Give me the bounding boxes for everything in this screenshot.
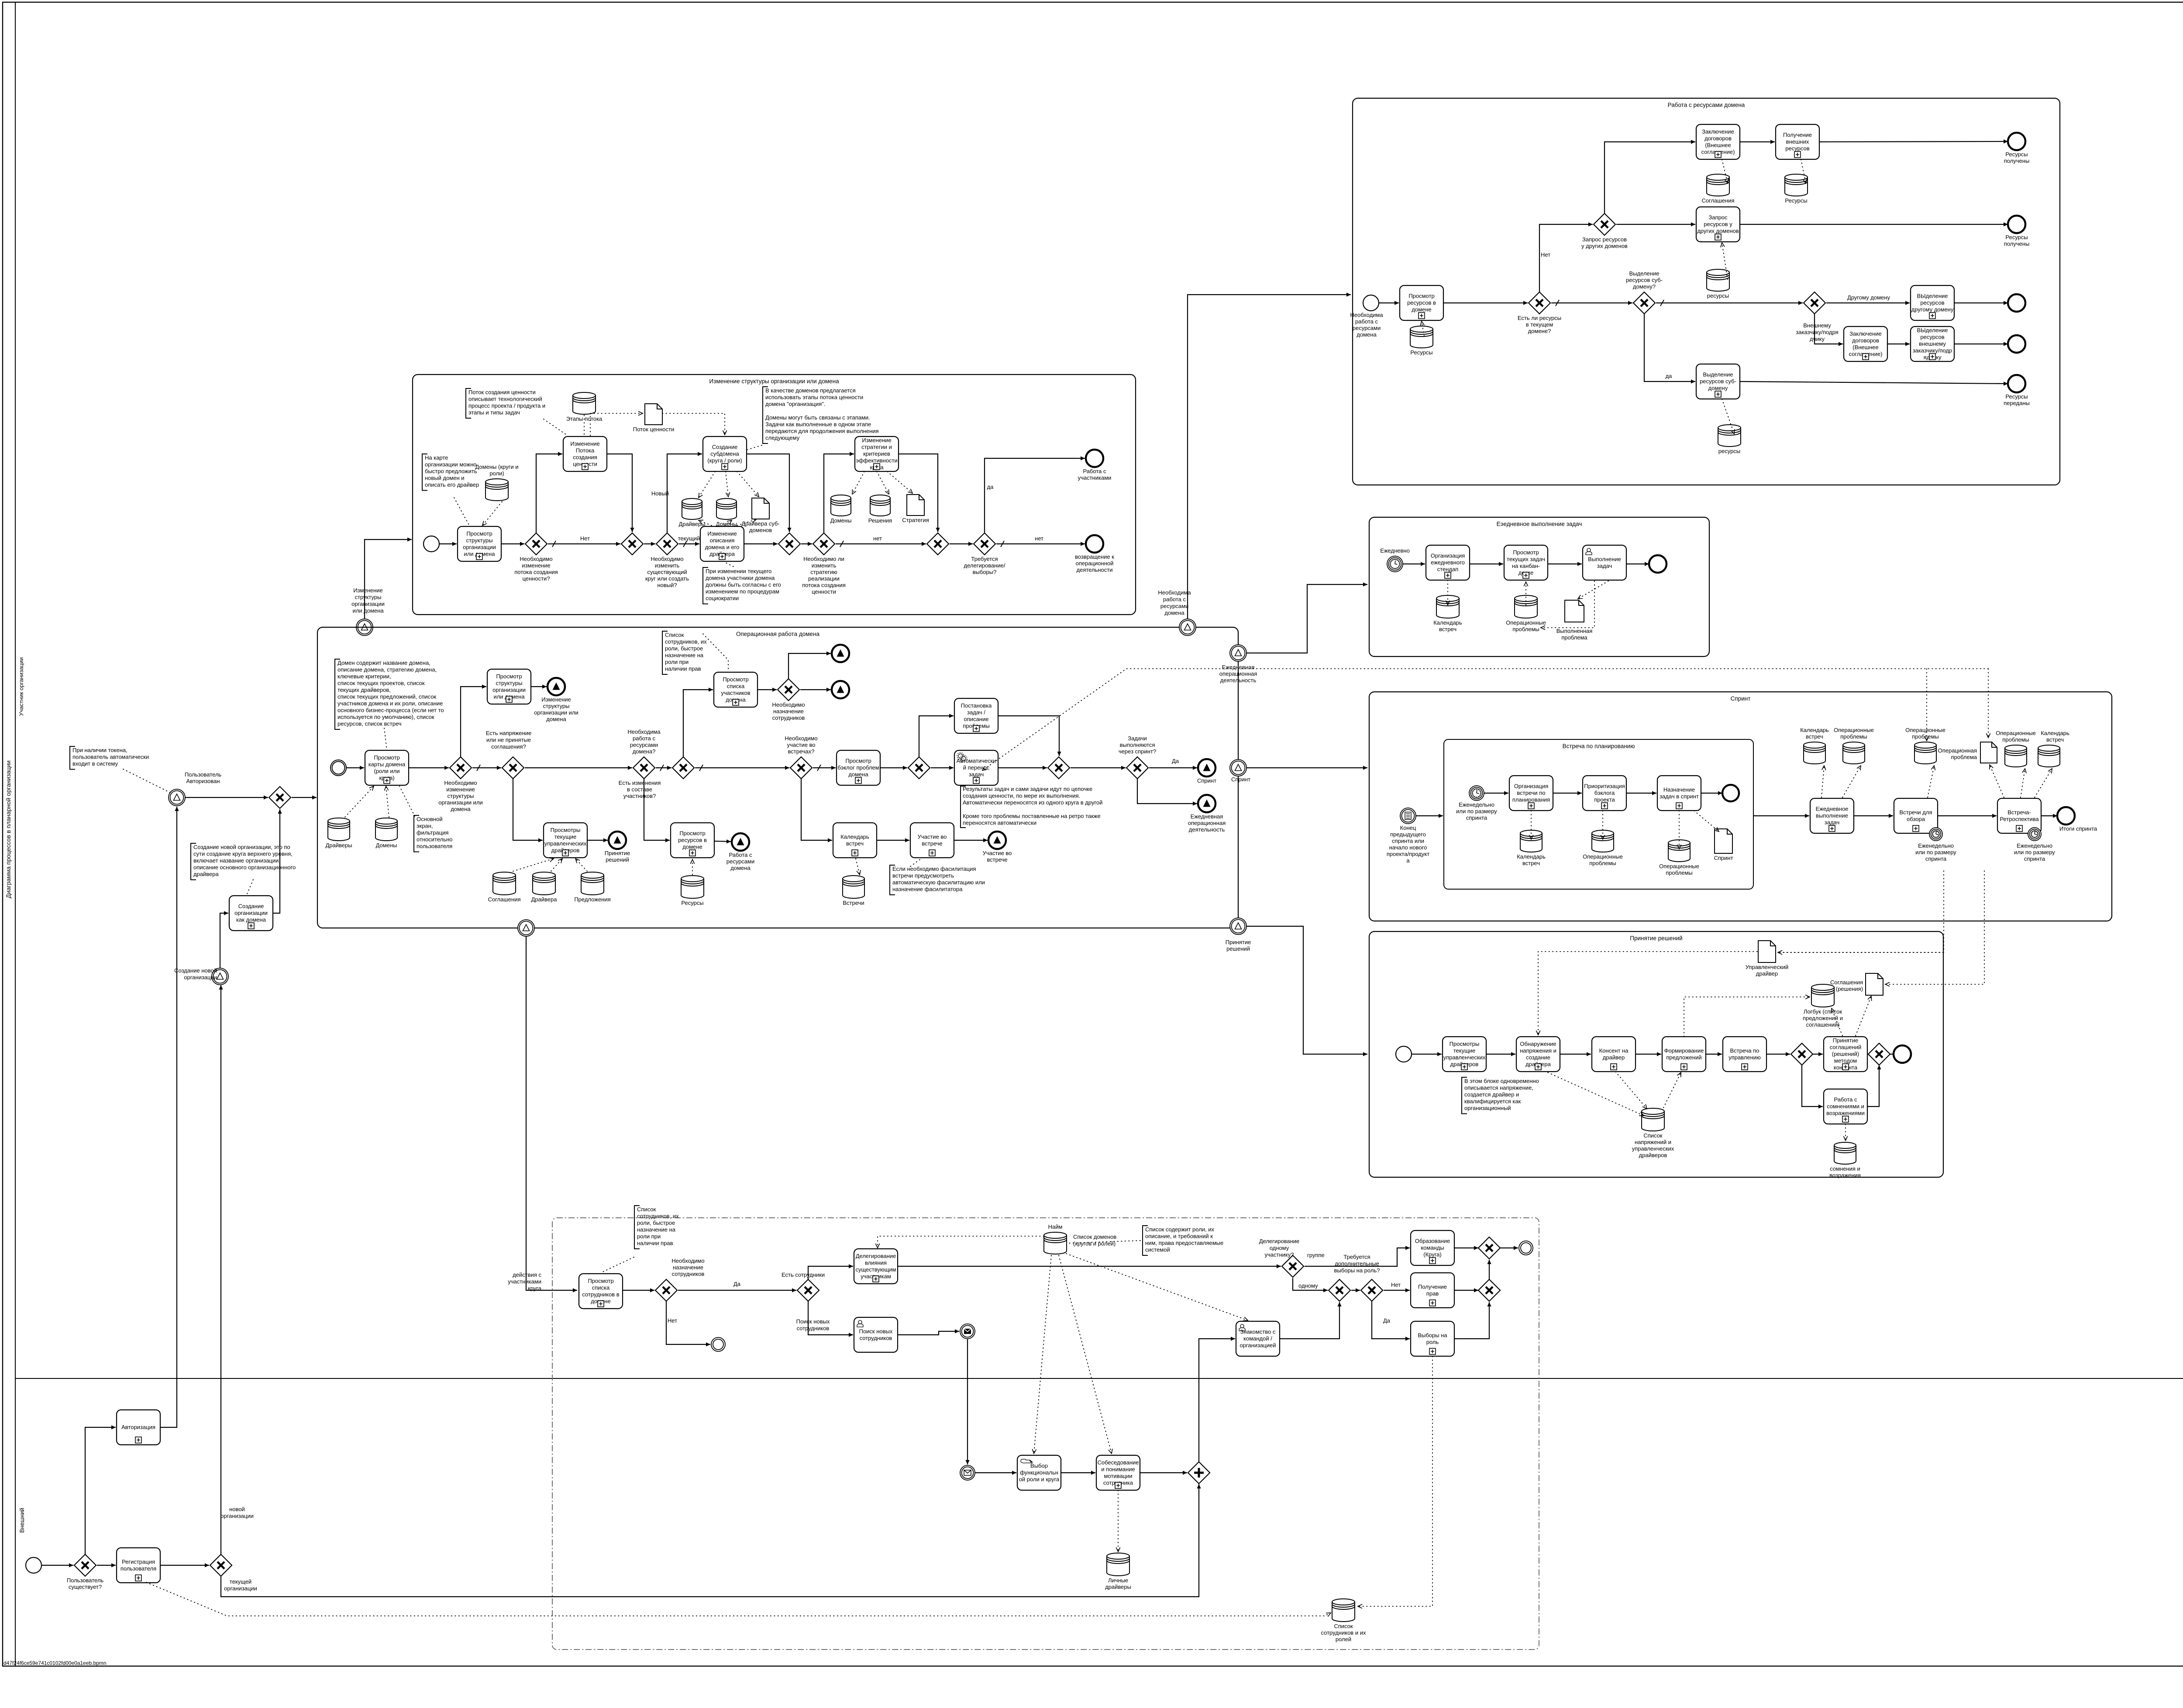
wire: Заключение 2 → ВЫделение внешнему (1887, 342, 1910, 346)
svg-text:проблемы: проблемы (1666, 869, 1692, 876)
svg-text:Принятие: Принятие (1226, 939, 1251, 945)
svg-text:Необходимо: Необходимо (772, 701, 805, 708)
svg-text:В этом блоке одновременно: В этом блоке одновременно (1464, 1078, 1539, 1084)
wire: гейтвей A1 → гейтвей A3 (1551, 300, 1632, 306)
svg-text:ценности?: ценности? (522, 575, 550, 582)
svg-text:Выделение: Выделение (1703, 371, 1733, 378)
wire: ВЫделение другому → конец (1954, 301, 2008, 305)
svg-text:Спринт: Спринт (1714, 855, 1733, 861)
annotation: Список сотрудников их роли (C) (662, 631, 707, 674)
svg-text:Задачи: Задачи (1128, 735, 1147, 742)
svg-text:ресурсами: ресурсами (727, 858, 754, 865)
svg-text:Диаграмма процессов в планарно: Диаграмма процессов в планарной организа… (5, 760, 12, 898)
wire: Создание организации → гейтвей авторизации (273, 809, 282, 913)
label: Есть напряжение или не принятые соглашения? (486, 730, 532, 750)
task: Формирование предложений (1662, 1037, 1706, 1072)
svg-text:Еэедневное выполнение задач: Еэедневное выполнение задач (1497, 521, 1582, 527)
svg-text:Ресурсы: Ресурсы (1410, 349, 1432, 356)
svg-text:деятельность: деятельность (1189, 826, 1225, 833)
assoc: аннотация список → Просмотр списка (703, 634, 728, 671)
wire: гейтвей A2 вверх → Заключение договоров (1605, 140, 1695, 213)
svg-text:(кругов и ролей): (кругов и ролей) (1073, 1241, 1116, 1247)
wire: Просмотр задач → Выполнение задач (1548, 562, 1582, 566)
svg-text:участнику?: участнику? (1265, 1251, 1294, 1258)
task: Получение прав (1411, 1273, 1454, 1308)
svg-text:соглашений: соглашений (1830, 1044, 1862, 1051)
svg-text:Кроме того проблемы поставленн: Кроме того проблемы поставленные на ретр… (963, 813, 1101, 819)
assoc: ресурсы A3 → Запрос ресурсов (1721, 243, 1728, 279)
svg-text:Домен содержит название домена: Домен содержит название домена, (337, 660, 430, 666)
svg-text:критериев: критериев (863, 450, 890, 457)
assoc: Ресурсы → Просмотр ресурсов A (1420, 321, 1424, 336)
svg-text:на канбан-: на канбан- (1512, 563, 1540, 569)
wire: гейтвей ресурсы → гейтвей участники (656, 765, 671, 771)
datastore: Домены (C) (375, 818, 397, 849)
svg-text:Операционная: Операционная (1938, 747, 1977, 754)
assoc: Найм → Выбор роли (1032, 1255, 1051, 1454)
assoc: Ретроспектива → Календарь ретро (2035, 769, 2052, 797)
wire: Образование → merge G3 (1454, 1246, 1478, 1250)
task: Выборы на роль (1411, 1321, 1454, 1356)
assoc: Организация встречи → Календарь (1529, 811, 1533, 839)
task: Приоритизация бэклога проекта (1583, 776, 1626, 811)
svg-text:организации: организации (463, 544, 496, 550)
svg-text:проблемы: проблемы (1912, 733, 1939, 740)
assoc: Этапы потока → Изменение Потока (584, 415, 585, 435)
svg-text:наличии прав: наличии прав (637, 1240, 673, 1247)
wire: Просмотр структуры C → эскалация (531, 684, 547, 688)
task: Календарь встреч (833, 823, 877, 858)
datastore: Драйверы (C) (325, 818, 352, 849)
svg-text:следующему: следующему (765, 435, 800, 441)
wire: гейтвей Нет → merge B1 (548, 535, 620, 547)
assoc: Ежедневное выполнение → Календарь E3 (1821, 766, 1826, 797)
svg-text:в текущем: в текущем (1526, 321, 1553, 328)
assoc: Изменение описания → Драйверы (699, 520, 712, 526)
svg-text:встрече: встрече (922, 840, 942, 847)
svg-text:d47f24f6ce59e741c0102fd00e0a1e: d47f24f6ce59e741c0102fd00e0a1eeb.bpmn (3, 1660, 107, 1666)
svg-text:ресурсами: ресурсами (1160, 603, 1188, 609)
svg-text:Еженедельно: Еженедельно (2017, 842, 2052, 849)
svg-text:сотрудников: сотрудников (860, 1335, 892, 1341)
label: группе (1307, 1252, 1325, 1258)
freetext: Результаты задач и сами задачи (963, 786, 1102, 826)
assoc: Назначение задач → Опер проблемы (1677, 811, 1681, 849)
wire: Выбор роли → Собеседование (1061, 1471, 1095, 1474)
svg-text:организации: организации (351, 601, 385, 607)
end event: возвращение к операционной деятельности (1075, 535, 1114, 573)
end event: Участие во встрече (эскалация) (983, 832, 1012, 863)
wire: merge C2 → Автоматический перенос (931, 766, 954, 770)
svg-text:Создание новой организации, эт: Создание новой организации, это по (193, 844, 290, 850)
wire: Регистрация → гейтвей (160, 1563, 209, 1567)
svg-text:домена: домена (546, 716, 566, 722)
svg-text:Регистрация: Регистрация (122, 1558, 155, 1565)
wire: BE работа с участниками вниз → группа G (526, 936, 577, 1292)
assoc: Выборы на роль → Список сотрудников DS (1358, 1356, 1432, 1608)
wire: гейтвей → Регистрация (97, 1563, 116, 1567)
svg-text:Выборы на: Выборы на (1418, 1332, 1447, 1338)
datastore: Операционные проблемы (над обзором) (1905, 727, 1945, 764)
svg-text:Соглашения: Соглашения (488, 896, 520, 903)
task: Просмотр структуры организации или домена (B) (458, 526, 501, 561)
svg-text:субдомена: субдомена (710, 450, 739, 457)
svg-text:предложений: предложений (1666, 1054, 1701, 1061)
task: Участие во встрече (910, 823, 954, 858)
assoc: Опер проблемы → Просмотр задач (1524, 582, 1528, 605)
task: Просмотры текущие управленческих драйверов (F) (1443, 1037, 1486, 1072)
svg-text:задач: задач (1597, 563, 1612, 569)
datastore: Найм (1044, 1223, 1067, 1254)
wire: гейтвей A4 Другому домену → ВЫделение другому (1826, 294, 1910, 305)
assoc: Найм → Собеседование (1059, 1255, 1112, 1454)
assoc: пунктир вниз к Операционной проблеме (спринт) (1986, 669, 1990, 738)
svg-text:Соглашения: Соглашения (1701, 197, 1734, 204)
svg-text:Драйвера: Драйвера (531, 896, 558, 903)
svg-text:ключевые критерии,: ключевые критерии, (337, 673, 391, 680)
svg-text:Автоматически: Автоматически (957, 758, 996, 764)
svg-text:ним, права предоставляемые: ним, права предоставляемые (1145, 1240, 1223, 1246)
wire: Просмотр карты → гейтвей C1 (409, 766, 449, 770)
assoc: Изменение стратегии → Домены2 (852, 471, 864, 494)
svg-text:реализации: реализации (808, 575, 840, 582)
svg-text:организации или: организации или (438, 799, 482, 806)
end event: Итоги спринта (2057, 807, 2097, 832)
svg-text:В качестве доменов предлагаетс: В качестве доменов предлагается (765, 387, 856, 394)
svg-text:возражениями: возражениями (1826, 1110, 1865, 1117)
svg-text:Изменение: Изменение (707, 530, 737, 537)
svg-text:или домена: или домена (352, 608, 384, 614)
svg-text:переданы: переданы (2004, 400, 2030, 406)
svg-text:Список: Список (1643, 1132, 1663, 1139)
subprocess frame: Операционная работа домена (317, 627, 1238, 928)
task: Изменение стратегии и критериев эффективности круга (855, 436, 899, 471)
svg-text:входит в систему: входит в систему (72, 760, 118, 767)
task: Знакомство с командой / организацией (1236, 1321, 1280, 1356)
svg-text:Задачи как выполненные в одном: Задачи как выполненные в одном этапе (765, 421, 871, 428)
svg-text:задач: задач (1825, 819, 1840, 826)
svg-text:Участие во: Участие во (983, 850, 1012, 856)
svg-text:текущей: текущей (230, 1578, 251, 1585)
svg-text:(решения): (решения) (1836, 986, 1863, 992)
wire: Постановка задач → merge C3 (998, 716, 1061, 756)
svg-text:Конец: Конец (1400, 825, 1416, 831)
svg-text:Автоматически переносятся из о: Автоматически переносятся из одного круг… (963, 799, 1102, 806)
end event: ресурсы (внешнему) (2008, 335, 2025, 353)
task: Запрос ресурсов у других доменов (1696, 207, 1740, 242)
gateway: вход в операционную работу (269, 787, 291, 808)
end event (планирование) (1722, 785, 1739, 801)
svg-text:Новый: Новый (651, 490, 669, 497)
svg-text:организации: организации (492, 687, 526, 693)
svg-text:ресурсов: ресурсов (1920, 334, 1944, 340)
boundary timer: Встречи для обзора (1915, 828, 1956, 862)
svg-text:Необходима: Необходима (1350, 312, 1383, 318)
svg-text:новый?: новый? (657, 582, 677, 588)
svg-text:Получение: Получение (1418, 1283, 1447, 1290)
assoc: аннотация фасилитация → Участие во встрече (910, 859, 921, 866)
svg-text:этапы и типы задач: этапы и типы задач (468, 409, 520, 416)
assoc: Изменение Потока → Поток ценности (590, 411, 643, 436)
svg-text:сотрудников и их: сотрудников и их (1321, 1629, 1366, 1636)
svg-text:прав: прав (1426, 1290, 1439, 1297)
svg-text:Создание новой: Создание новой (174, 967, 217, 974)
datastore: Операционные проблемы (E1) (1583, 830, 1623, 866)
start event (Изменение структуры) (424, 536, 439, 552)
wire: Получение прав → merge G4 (1454, 1288, 1478, 1292)
svg-text:Да: Да (733, 1281, 741, 1287)
assoc: аннотация В качестве → Создание субдомена (747, 445, 762, 450)
wire: merge C1 → гейтвей ресурсы (525, 766, 632, 770)
wire: merge G2 → гейтвей выборы (1351, 1288, 1360, 1292)
svg-text:описания: описания (710, 537, 735, 543)
wire: parallel вверх → Знакомство (1199, 1337, 1235, 1462)
annotation: Список содержит роли (1143, 1226, 1223, 1255)
document: Драйвера суб-доменов (741, 498, 780, 533)
svg-text:Операционные: Операционные (1506, 619, 1546, 626)
task: Заключение договоров (Внешнее соглашение) 2 (1844, 326, 1887, 361)
start event (принятие решений) (1396, 1046, 1412, 1062)
svg-text:Календарь: Календарь (1800, 727, 1829, 733)
svg-text:заказчику/подр: заказчику/подр (1913, 347, 1952, 354)
svg-text:экран,: экран, (417, 823, 433, 829)
svg-text:При наличии токена,: При наличии токена, (72, 747, 127, 753)
svg-text:Получение: Получение (1783, 132, 1812, 138)
svg-text:спринта или: спринта или (1392, 838, 1424, 844)
wire: Выделение суб-домену → Ресурсы переданы (1740, 381, 2008, 386)
svg-text:описание: описание (964, 716, 989, 722)
svg-text:деятельность: деятельность (1220, 677, 1257, 684)
svg-text:назначение: назначение (673, 1264, 703, 1271)
svg-text:Ресурсы: Ресурсы (1785, 197, 1807, 204)
svg-text:или по размеру: или по размеру (2014, 849, 2055, 856)
svg-text:Необходимо: Необходимо (444, 780, 477, 786)
svg-text:описать его драйвер: описать его драйвер (425, 481, 479, 488)
svg-text:ресурсов, список встреч: ресурсов, список встреч (337, 721, 402, 727)
svg-text:стратегии и: стратегии и (861, 444, 892, 450)
svg-text:Ресурсы: Ресурсы (2005, 234, 2028, 241)
svg-text:(роли или: (роли или (374, 768, 399, 774)
assoc: Найм → Делегирование (875, 1236, 1044, 1248)
svg-text:потока создания: потока создания (514, 569, 558, 575)
svg-text:домену: домену (1708, 385, 1728, 392)
svg-text:внешнему: внешнему (1919, 340, 1946, 347)
annotation: Если необходимо фасилитация (890, 865, 985, 895)
svg-text:Изменение: Изменение (541, 696, 571, 703)
wire: гейтвей группе → Образование команды (1305, 1246, 1410, 1266)
wire: гейтвей да → Авторизация (85, 1425, 116, 1554)
svg-text:сотрудников, их: сотрудников, их (637, 1213, 679, 1220)
svg-text:Результаты задач и сами задачи: Результаты задач и сами задачи идут по ц… (963, 786, 1092, 792)
wire: гейтвей → Операционная работа домена (292, 795, 317, 799)
svg-text:быстро предложить: быстро предложить (425, 468, 477, 474)
wire: Просмотр списка сотрудников → гейтвей G1 (623, 1288, 654, 1292)
svg-text:проблемы: проблемы (2002, 736, 2029, 743)
svg-text:одному: одному (1270, 1245, 1289, 1251)
svg-text:Просмотр: Просмотр (496, 673, 522, 680)
svg-text:проблемы: проблемы (1840, 733, 1867, 740)
svg-text:Есть напряжение: Есть напряжение (486, 730, 532, 736)
svg-text:автоматическую фасилитацию или: автоматическую фасилитацию или (892, 879, 985, 886)
wire: старт B → Просмотр структуры (439, 542, 457, 546)
svg-text:Требуется: Требуется (1343, 1254, 1370, 1260)
annotation: В этом блоке одновременно (1462, 1077, 1539, 1114)
svg-text:(Круга): (Круга) (1423, 1251, 1442, 1258)
label: действия с участниками круга (508, 1272, 542, 1292)
svg-text:ресурсов: ресурсов (1920, 299, 1944, 306)
task: ВЫделение ресурсов внешнему заказчику (1911, 326, 1954, 361)
svg-text:домена?: домена? (633, 748, 656, 755)
svg-text:круг или создать: круг или создать (645, 575, 689, 582)
wire: гейтвей да вверх → Работа с участниками (985, 456, 1085, 533)
svg-text:Да: Да (1172, 758, 1179, 764)
svg-text:текущих драйверов,: текущих драйверов, (337, 687, 391, 693)
svg-text:Работа с ресурсами домена: Работа с ресурсами домена (1668, 102, 1745, 108)
svg-text:драйвера: драйвера (193, 871, 219, 877)
svg-text:да: да (1666, 373, 1673, 379)
svg-text:Соглашения: Соглашения (1830, 979, 1863, 986)
svg-text:ой роли и круга: ой роли и круга (1019, 1476, 1060, 1483)
assoc: Предложения → Просмотры драйверов (575, 859, 587, 871)
svg-text:участников: участников (721, 690, 750, 696)
svg-text:эффективности: эффективности (856, 457, 897, 464)
assoc: Работа с сомнениями → сомнения DS (1843, 1124, 1847, 1141)
svg-text:доменов: доменов (749, 527, 772, 533)
svg-text:планирования: планирования (1512, 797, 1550, 803)
message catch: найм (960, 1465, 975, 1480)
gateway: merge C3 (1048, 757, 1070, 779)
assoc: Принятие соглашений → Логбук (1831, 1008, 1842, 1036)
gateway: Задачи выполняются через спринт? (1119, 735, 1156, 779)
assoc: Ретроспектива → Опер проблемы ретро (2021, 769, 2026, 797)
svg-text:Календарь: Календарь (1433, 619, 1462, 626)
svg-text:Просмотр: Просмотр (845, 758, 871, 764)
svg-text:получены: получены (2004, 158, 2030, 164)
end event: Ежедневная операционная деятельность (эскалация) (1188, 795, 1226, 833)
svg-text:текущих задач: текущих задач (1507, 556, 1545, 562)
gateway: merge B2 (778, 533, 800, 555)
svg-text:получены: получены (2004, 241, 2030, 247)
task: Ежедневное выполнение задач (E) (1810, 798, 1854, 833)
assoc: Приоритизация → Опер проблемы (1601, 811, 1605, 839)
svg-text:Операционные: Операционные (1834, 727, 1874, 733)
svg-text:возвращение к: возвращение к (1075, 553, 1114, 560)
svg-text:Участие во: Участие во (918, 833, 947, 840)
svg-text:Работа с: Работа с (1083, 468, 1106, 474)
svg-text:группе: группе (1307, 1252, 1325, 1258)
svg-text:Предложения: Предложения (574, 896, 610, 903)
svg-text:Стратегия: Стратегия (902, 517, 929, 523)
assoc: Выполнение задач → Выполненная проблема (1578, 581, 1608, 599)
svg-text:Авторизован: Авторизован (186, 778, 220, 784)
svg-text:Необходимо: Необходимо (785, 735, 817, 742)
svg-text:социократии: социократии (706, 595, 739, 601)
gateway: merge C2 (908, 757, 930, 779)
svg-text:ресурсов в: ресурсов в (1407, 299, 1436, 306)
svg-text:переносятся автоматически: переносятся автоматически (963, 820, 1036, 826)
svg-text:использовать этапы потока ценн: использовать этапы потока ценности (765, 394, 863, 401)
svg-text:и понимание: и понимание (1101, 1466, 1135, 1472)
task: Консент на драйвер (1592, 1037, 1636, 1072)
wire: гейтвей A2 → Запрос ресурсов (1616, 222, 1695, 226)
svg-text:должны быть согласны с его: должны быть согласны с его (706, 581, 781, 588)
label: Внешнему заказчику/подрядчику (1796, 322, 1838, 342)
assoc: Ретроспектива → Соглашения решения (вниз) (1885, 871, 1984, 986)
svg-text:Консент на: Консент на (1599, 1047, 1629, 1054)
assoc: Соглашения → Просмотры драйверов (513, 858, 554, 872)
assoc: Выполнение задач → Опер проблемы (1541, 581, 1594, 630)
conditional start: Конец предыдущего спринта (1387, 808, 1429, 864)
end event: эскалация 1 (назначение) (832, 645, 849, 662)
wire: F1 вниз → Работа с сомнениями (1802, 1065, 1823, 1109)
svg-text:Нет: Нет (668, 1317, 677, 1324)
end event: Ресурсы получены 2 (2004, 216, 2030, 247)
svg-text:Пользователь: Пользователь (185, 771, 222, 778)
wire: гейтвей участники вверх → Просмотр списка (683, 687, 713, 757)
svg-text:Драйвера суб-: Драйвера суб- (741, 520, 780, 527)
datastore: Ресурсы (A2) (1785, 174, 1808, 204)
wire: Делегирование → гейтвей одному (898, 1264, 1281, 1268)
svg-text:организации: организации (220, 1513, 254, 1519)
wire: гейтвей вверх → Просмотр структуры C (461, 684, 486, 757)
svg-text:организационный: организационный (1464, 1105, 1511, 1111)
svg-text:Запрос ресурсов: Запрос ресурсов (1582, 236, 1627, 243)
svg-text:Список: Список (665, 632, 684, 638)
label: Да (G) (1383, 1317, 1391, 1324)
start event (операционная) (331, 760, 346, 776)
svg-text:пользователя: пользователя (417, 843, 452, 849)
wire: Ежедневное выполнение → Встречи для обзора (1854, 814, 1893, 818)
end event: Спринт (эскалация) (1197, 759, 1216, 784)
task: Организация ежедневного стендап (1426, 545, 1470, 580)
datastore: Ресурсы (A) (1410, 326, 1433, 356)
bracket: Результаты задач (961, 786, 966, 828)
wire: вход в Спринт → внутренняя рамка (1416, 814, 1443, 818)
svg-text:решений: решений (1226, 945, 1250, 952)
svg-text:Изменение: Изменение (570, 440, 600, 447)
svg-text:роли): роли) (489, 470, 504, 477)
svg-text:Спринт: Спринт (1731, 695, 1751, 702)
svg-text:Поток ценности: Поток ценности (633, 426, 674, 433)
assoc: аннотация → Просмотр структуры (454, 498, 469, 526)
task: Встречи для обзора (1894, 798, 1938, 833)
gateway: Необходимо назначение сотрудников (G) (655, 1258, 705, 1301)
svg-text:Операционные: Операционные (1659, 863, 1699, 869)
svg-text:домена и его: домена и его (705, 544, 740, 550)
datastore: Личные драйверы (1105, 1553, 1131, 1590)
gateway: merge G2 (1329, 1279, 1350, 1301)
assoc: Изменение описания → Драйвера суб (737, 519, 756, 526)
svg-text:проекта: проекта (1594, 797, 1615, 803)
svg-text:задач в спринт: задач в спринт (1660, 793, 1699, 800)
svg-text:Участник организации: Участник организации (18, 657, 24, 716)
assoc: Ежедневное выполнение → Опер проблемы E3 (1842, 766, 1861, 797)
datastore: Календарь встреч (E3) (1800, 727, 1829, 764)
svg-text:списка: списка (592, 1284, 610, 1291)
task: Создание организации как домена (229, 896, 273, 931)
task: Просмотр списка участников домена (714, 672, 758, 707)
gateway: Запрос ресурсов у других доменов (1581, 213, 1628, 249)
svg-text:встреч: встреч (1522, 860, 1540, 866)
wire: таймер → Организация стендап (1403, 562, 1425, 566)
svg-text:Найм: Найм (1048, 1223, 1063, 1230)
svg-text:Назначение: Назначение (1663, 786, 1695, 793)
svg-text:Нет: Нет (1541, 251, 1550, 258)
svg-text:(Внешнее: (Внешнее (1705, 142, 1731, 148)
svg-text:участниками: участниками (1078, 474, 1112, 481)
wire: Просмотры → Обнаружение (1486, 1052, 1515, 1056)
start event (ресурсы) (1350, 295, 1383, 338)
